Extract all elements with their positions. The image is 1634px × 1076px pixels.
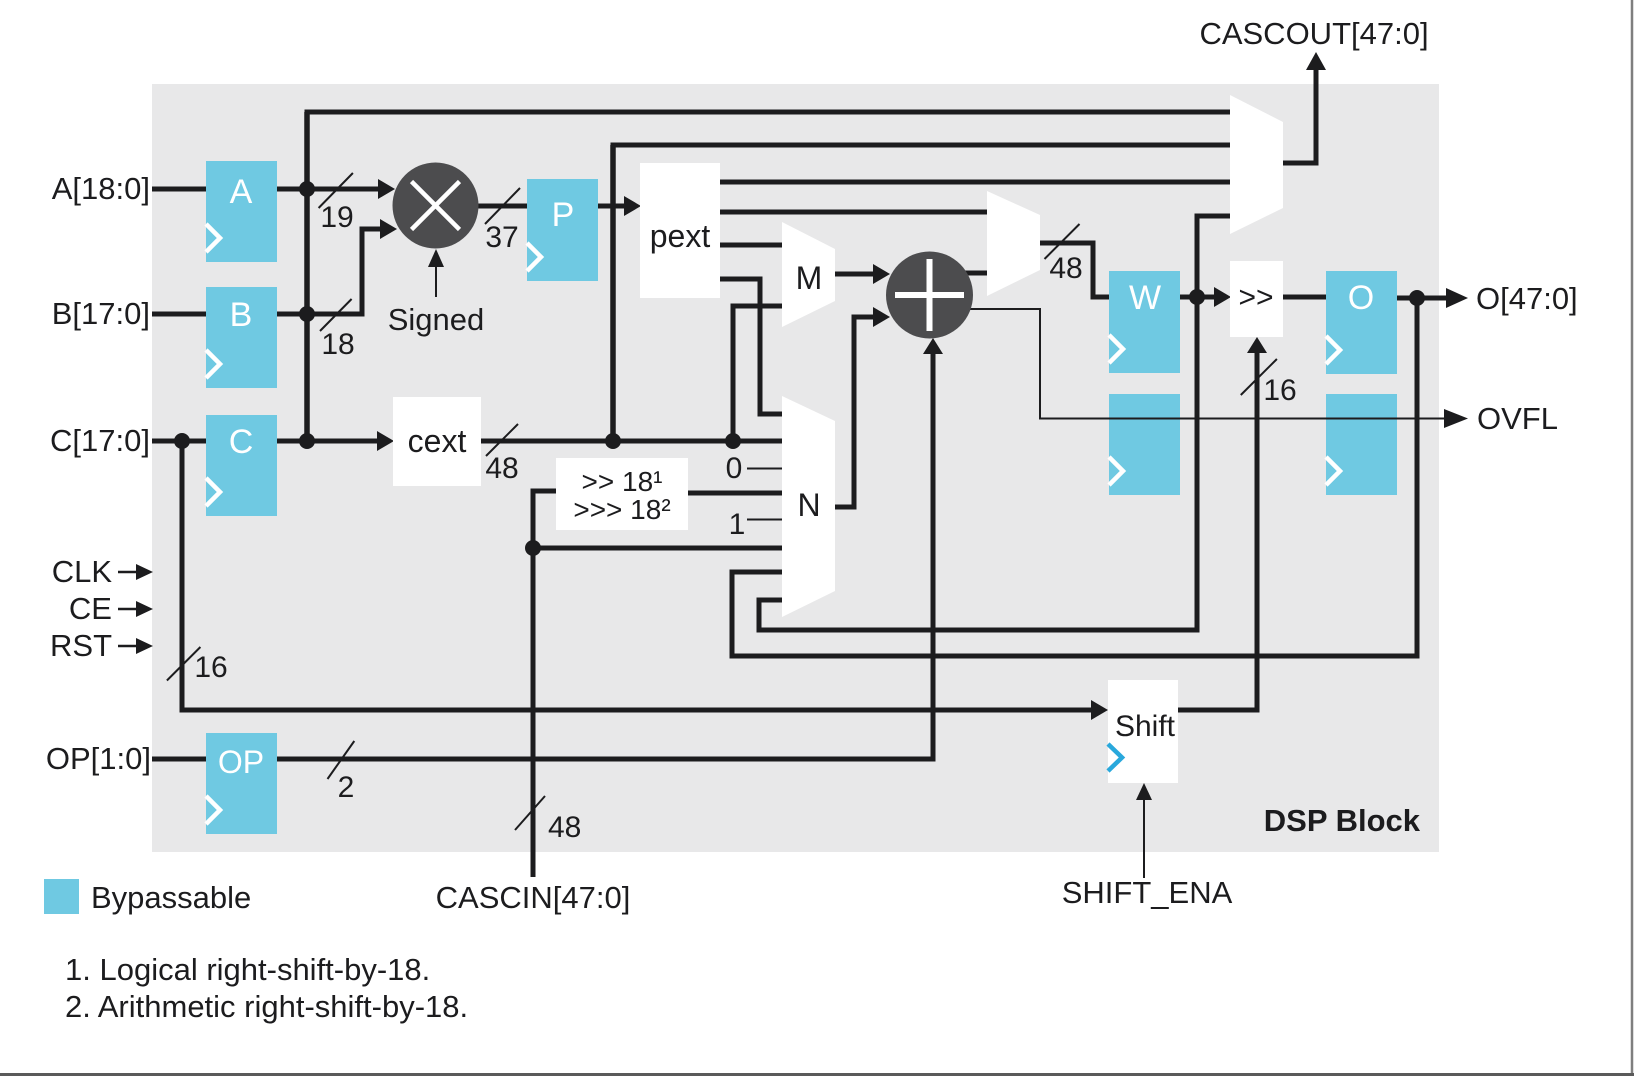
svg-text:0: 0 bbox=[726, 452, 743, 485]
wire B input bbox=[152, 312, 207, 317]
node A bus junction bbox=[299, 181, 315, 197]
register O bbox=[1326, 271, 1397, 374]
register C bbox=[206, 415, 277, 516]
wire OP input bbox=[152, 757, 207, 762]
bus width slash 2 bbox=[328, 741, 355, 804]
svg-text:1. Logical right-shift-by-18.: 1. Logical right-shift-by-18. bbox=[65, 952, 430, 987]
wire CLK arrow bbox=[118, 564, 153, 580]
wire result mux output to W bbox=[1040, 243, 1109, 297]
wire M mux output to adder bbox=[835, 264, 890, 284]
svg-text:M: M bbox=[796, 260, 823, 296]
box right-shift-18 bbox=[556, 458, 688, 530]
svg-text:O[47:0]: O[47:0] bbox=[1476, 281, 1578, 316]
node C bus junction bbox=[299, 433, 315, 449]
svg-text:SHIFT_ENA: SHIFT_ENA bbox=[1062, 875, 1233, 910]
svg-text:DSP Block: DSP Block bbox=[1264, 803, 1421, 838]
wire adder output to result mux bbox=[965, 271, 987, 276]
wire P output to pext bbox=[596, 196, 641, 216]
box right-shifter bbox=[1230, 261, 1283, 337]
wire cext output bus bbox=[480, 439, 782, 444]
page border bottom bbox=[0, 1073, 1634, 1076]
svg-text:48: 48 bbox=[1049, 252, 1082, 285]
bus width slash 48 result bbox=[1045, 224, 1083, 285]
svg-text:48: 48 bbox=[485, 452, 518, 485]
register W ovfl (unlabeled) bbox=[1109, 394, 1180, 495]
wire SHIFT_ENA arrow bbox=[1136, 783, 1152, 878]
multiplier bbox=[393, 163, 479, 249]
svg-text:18: 18 bbox=[321, 328, 354, 361]
svg-text:Bypassable: Bypassable bbox=[91, 880, 251, 915]
wire ABC vertical bus x307 bbox=[304, 112, 310, 441]
svg-text:C[17:0]: C[17:0] bbox=[50, 423, 150, 458]
adder bbox=[886, 252, 973, 339]
bus width slash 18 bbox=[320, 299, 355, 361]
svg-text:>>: >> bbox=[1238, 281, 1273, 314]
node CASCIN junction bbox=[525, 540, 541, 556]
DSP block grey background bbox=[152, 84, 1439, 852]
register OP bbox=[206, 733, 277, 834]
svg-text:2: 2 bbox=[338, 771, 355, 804]
bus width slash 37 bbox=[485, 188, 520, 254]
svg-text:19: 19 bbox=[320, 201, 353, 234]
wire CE arrow bbox=[118, 601, 153, 617]
svg-text:OVFL: OVFL bbox=[1477, 401, 1558, 436]
wire top bus y112 to CASCOUT mux bbox=[305, 110, 1231, 115]
svg-text:CASCIN[47:0]: CASCIN[47:0] bbox=[436, 880, 631, 915]
wire OP output to adder bbox=[276, 338, 943, 759]
svg-text:C: C bbox=[229, 423, 254, 461]
svg-text:B: B bbox=[230, 296, 253, 334]
node W output junction bbox=[1189, 289, 1205, 305]
register W bbox=[1109, 271, 1180, 373]
svg-text:48: 48 bbox=[548, 811, 581, 844]
wire RST arrow bbox=[118, 638, 153, 654]
box pext bbox=[640, 163, 720, 298]
wire N mux output to adder bbox=[835, 307, 890, 507]
node cext to M junction bbox=[725, 433, 741, 449]
wire CASCOUT mux output bbox=[1283, 52, 1326, 163]
svg-text:>> 18¹: >> 18¹ bbox=[582, 466, 663, 497]
svg-text:OP[1:0]: OP[1:0] bbox=[46, 741, 151, 776]
node cext branch junction bbox=[605, 433, 621, 449]
svg-text:cext: cext bbox=[408, 423, 467, 459]
wire CASCIN bus bbox=[533, 491, 782, 877]
wire shifter18 output to N mux bbox=[687, 491, 782, 496]
wire W output to right-shifter bbox=[1180, 287, 1231, 307]
node B bus junction bbox=[299, 306, 315, 322]
mux result bbox=[987, 191, 1040, 296]
svg-text:16: 16 bbox=[194, 651, 227, 684]
wire right-shifter output to O bbox=[1283, 295, 1326, 300]
svg-text:Signed: Signed bbox=[388, 302, 485, 337]
register A bbox=[206, 161, 277, 262]
node N mux constant 1 bbox=[747, 519, 782, 521]
svg-text:CLK: CLK bbox=[52, 554, 113, 589]
register P bbox=[527, 179, 598, 281]
box Shift bbox=[1108, 680, 1178, 783]
wire adder overflow to OVFL bbox=[963, 309, 1468, 428]
svg-text:A: A bbox=[230, 173, 253, 211]
register O ovfl (unlabeled) bbox=[1326, 394, 1397, 495]
svg-text:16: 16 bbox=[1263, 374, 1296, 407]
svg-text:W: W bbox=[1129, 279, 1161, 317]
svg-text:CE: CE bbox=[69, 591, 112, 626]
wire W feedback to CASCOUT mux and N mux bbox=[759, 216, 1230, 630]
wire B output to multiplier bbox=[276, 219, 397, 314]
wire C input bbox=[152, 439, 207, 444]
mux CASCOUT bbox=[1230, 95, 1283, 234]
svg-text:OP: OP bbox=[218, 744, 264, 780]
bus width slash 16 clk bbox=[167, 647, 228, 684]
svg-text:P: P bbox=[552, 196, 575, 234]
bus width slash 48 cext bbox=[485, 424, 518, 485]
svg-text:A[18:0]: A[18:0] bbox=[52, 171, 150, 206]
svg-text:Shift: Shift bbox=[1115, 710, 1176, 743]
bus width slash 19 bbox=[319, 173, 354, 234]
wire multiplier to P bbox=[477, 204, 528, 209]
page border right bbox=[1631, 0, 1634, 1076]
wire pext out3 to M mux bbox=[720, 243, 782, 248]
svg-text:2. Arithmetic right-shift-by-1: 2. Arithmetic right-shift-by-18. bbox=[65, 989, 468, 1024]
wire A output to multiplier bbox=[276, 179, 395, 199]
wire cext branch vertical x613 bbox=[610, 145, 616, 441]
bus width slash 48 CASCIN bbox=[515, 796, 581, 844]
svg-text:>>> 18²: >>> 18² bbox=[573, 494, 670, 525]
svg-text:pext: pext bbox=[650, 218, 711, 254]
wire cext to M mux input bbox=[733, 306, 782, 441]
wire O feedback to N mux bbox=[732, 298, 1417, 656]
wire CLK CE RST bus to Shift bbox=[182, 441, 1108, 720]
wire pext out4 to N mux bbox=[720, 279, 782, 414]
wire bus y145 to CASCOUT mux bbox=[611, 143, 1231, 148]
svg-text:RST: RST bbox=[50, 628, 112, 663]
legend Bypassable bbox=[44, 879, 251, 915]
wire C output to cext bbox=[276, 431, 394, 451]
mux N bbox=[782, 396, 835, 617]
svg-text:B[17:0]: B[17:0] bbox=[52, 296, 150, 331]
wire pext out2 to result mux bbox=[720, 210, 987, 215]
svg-text:1: 1 bbox=[729, 508, 746, 541]
svg-text:O: O bbox=[1348, 279, 1374, 317]
wire O output bbox=[1396, 288, 1468, 308]
node C input junction bbox=[174, 433, 190, 449]
node N mux constant 0 bbox=[747, 468, 782, 470]
node O output junction bbox=[1409, 290, 1425, 306]
svg-text:CASCOUT[47:0]: CASCOUT[47:0] bbox=[1199, 16, 1428, 51]
wire Shift output to right-shifter bbox=[1178, 337, 1267, 710]
wire Signed control arrow bbox=[428, 249, 444, 297]
wire pext out1 to CASCOUT mux bbox=[720, 180, 1230, 185]
svg-text:N: N bbox=[797, 487, 820, 523]
wire A input bbox=[152, 187, 207, 192]
register B bbox=[206, 287, 277, 388]
box cext bbox=[393, 397, 481, 486]
mux M bbox=[782, 222, 835, 327]
bus width slash 16 shifter bbox=[1241, 359, 1297, 407]
svg-text:37: 37 bbox=[485, 221, 518, 254]
